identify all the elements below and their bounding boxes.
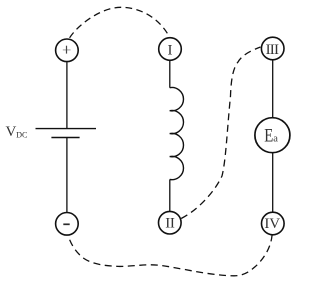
node III	[261, 37, 284, 60]
svg-text:II: II	[165, 216, 175, 232]
node IV	[262, 212, 285, 235]
node II	[159, 211, 182, 234]
svg-text:III: III	[266, 42, 279, 58]
wire: generator E_a to node IV	[272, 153, 274, 212]
svg-text:I: I	[168, 42, 173, 58]
wire: dashed arc from + terminal to node I	[70, 7, 170, 38]
battery V_DC (DC source)	[36, 129, 97, 138]
wire: node III to generator E_a	[272, 60, 274, 117]
svg-text:E: E	[264, 125, 273, 146]
wire: node I to inductor	[169, 61, 171, 88]
terminal - of V_DC	[56, 213, 79, 236]
svg-text:IV: IV	[264, 216, 280, 232]
generator E_a	[255, 118, 290, 153]
wire: battery bottom plate to - terminal	[66, 138, 68, 213]
wire: dashed bottom run from - terminal to node IV	[68, 236, 272, 276]
node I	[159, 38, 182, 61]
terminal + of V_DC	[56, 39, 79, 62]
wire: inductor to node II	[169, 180, 171, 212]
inductor L	[170, 88, 184, 180]
wire: + terminal to battery top plate	[66, 62, 68, 129]
wire: dashed from node II up to node III	[181, 47, 260, 219]
svg-text:a: a	[273, 134, 278, 145]
